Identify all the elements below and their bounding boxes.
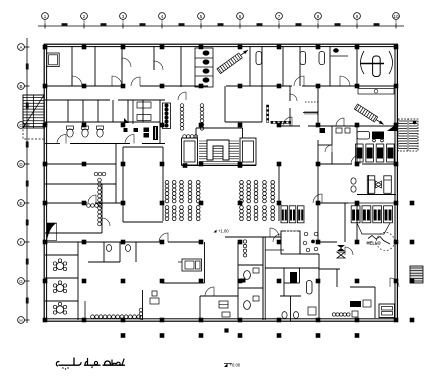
level label +0.00 <box>224 363 241 368</box>
equipment row bottom right <box>222 311 358 317</box>
waiting hall east wall <box>278 164 280 221</box>
svg-text:5: 5 <box>200 14 203 19</box>
structural column dots <box>43 45 399 323</box>
left dimension line <box>25 38 30 323</box>
title ground floor plan (drawn) <box>56 358 124 370</box>
svg-text:F: F <box>20 240 23 245</box>
lab room walls <box>225 86 262 122</box>
chairs along bottom wall <box>91 308 143 319</box>
exterior stair left <box>23 95 44 139</box>
level label +1.00 <box>214 229 230 234</box>
svg-text:+1.00: +1.00 <box>218 229 229 234</box>
trolley room bottom centre-left <box>150 291 159 304</box>
symbol bottom-centre room <box>219 301 228 308</box>
svg-text:E: E <box>19 201 22 206</box>
right rows CD rooms <box>318 126 350 164</box>
svg-text:B: B <box>19 84 22 89</box>
room cols7-8 fixtures <box>290 86 320 126</box>
corridor wall row B <box>45 85 396 87</box>
black door swing left wing <box>47 223 57 241</box>
surgical lamps bottom <box>337 245 345 258</box>
svg-text:H: H <box>19 318 22 323</box>
corridor walls row F left <box>45 233 201 242</box>
diagonal ramp top centre <box>217 48 250 74</box>
equipment dashed circle bottom right <box>367 233 395 251</box>
door swing arcs <box>57 58 399 296</box>
building outer wall double line <box>44 44 397 321</box>
corridor wall y143 left <box>45 143 165 145</box>
colonnade dots below building <box>121 328 360 337</box>
entry arrow right wall <box>387 123 398 131</box>
wc suite centre-top <box>195 48 213 87</box>
partitions top-left rooms <box>72 46 181 87</box>
svg-text:6: 6 <box>239 14 242 19</box>
toilets left washrooms <box>67 126 104 137</box>
bottom-left office partitions <box>45 242 78 320</box>
bed row upper right <box>356 144 395 162</box>
svg-text:8: 8 <box>317 14 320 19</box>
storage top-left corner <box>47 53 59 67</box>
dark cabinet bar <box>153 126 158 140</box>
central lower corridor wall <box>225 237 284 320</box>
dark stool column <box>163 103 171 129</box>
svg-text:2: 2 <box>83 14 86 19</box>
svg-text:7: 7 <box>278 14 281 19</box>
ophthalmic instrument <box>360 51 393 77</box>
desk bottom-right <box>379 304 395 318</box>
wc fixtures bottom centre <box>240 268 259 309</box>
washroom partitions left <box>68 100 160 143</box>
right rows EF partitions <box>318 203 345 242</box>
lab checkered counter <box>267 105 291 124</box>
svg-text:+0.00: +0.00 <box>230 363 241 368</box>
wc partitions bottom centre <box>238 242 263 296</box>
delivery room beds <box>367 176 391 194</box>
svg-text:3: 3 <box>122 14 125 19</box>
corridor wall y100 left <box>45 99 165 101</box>
svg-text:D: D <box>19 162 23 167</box>
corridor chair chain <box>87 172 106 226</box>
svg-text:G: G <box>19 279 23 284</box>
top grid axis bubbles 1-10 <box>42 13 400 20</box>
colonnade dots right of building <box>410 201 415 323</box>
wc stalls bottom right <box>280 296 316 321</box>
top-centre room partitions <box>250 46 300 86</box>
stair landing dots <box>183 163 243 168</box>
left grid axis bubbles A-H <box>18 44 25 324</box>
bed row lower middle <box>281 206 304 223</box>
svg-text:9: 9 <box>356 14 359 19</box>
wall y122 left wing <box>45 121 160 123</box>
top dimension line <box>38 20 404 29</box>
chairs bottom centre <box>243 240 246 257</box>
copier bottom-left hall <box>178 259 202 271</box>
dark item row C right <box>320 128 326 133</box>
operating room stools <box>303 232 318 252</box>
waiting chairs left block <box>165 180 200 220</box>
operating suite inner walls <box>265 236 340 320</box>
left courtyard walls <box>123 147 163 222</box>
exterior pad right <box>410 266 423 283</box>
dark cabinet and bed bottom right <box>290 272 312 294</box>
exterior stair right <box>398 119 418 151</box>
bottom-right partition walls <box>337 223 390 318</box>
waiting chairs right block <box>240 180 275 220</box>
left wing room partitions <box>45 144 116 234</box>
washrooms row F left <box>88 242 136 262</box>
gurneys right wing <box>357 132 384 142</box>
svg-text:1: 1 <box>44 14 47 19</box>
stair-top chairs <box>183 135 198 139</box>
bed row lower right <box>351 206 392 223</box>
central staircase and elevators <box>182 128 257 166</box>
office desks bottom-left <box>53 259 66 314</box>
bottom-centre room walls <box>85 242 238 320</box>
diagonal ramp right wing <box>354 104 385 127</box>
svg-text:A: A <box>19 45 22 50</box>
wardrobes top rooms <box>256 52 325 65</box>
wall row E left <box>45 202 123 204</box>
sterilizer room bottom right <box>281 231 300 255</box>
svg-text:4: 4 <box>161 14 164 19</box>
toilets right wing <box>351 178 356 192</box>
queue chairs below stair <box>180 104 204 130</box>
right wing verticals <box>318 46 357 242</box>
counter top right <box>358 89 394 95</box>
cupboard room col3 <box>124 100 152 138</box>
wc top right <box>330 48 348 56</box>
bed bottom-right corner <box>350 300 371 307</box>
right wing horizontal walls <box>279 126 396 242</box>
svg-text:10: 10 <box>393 14 399 19</box>
svg-text:HELLO: HELLO <box>367 241 382 246</box>
